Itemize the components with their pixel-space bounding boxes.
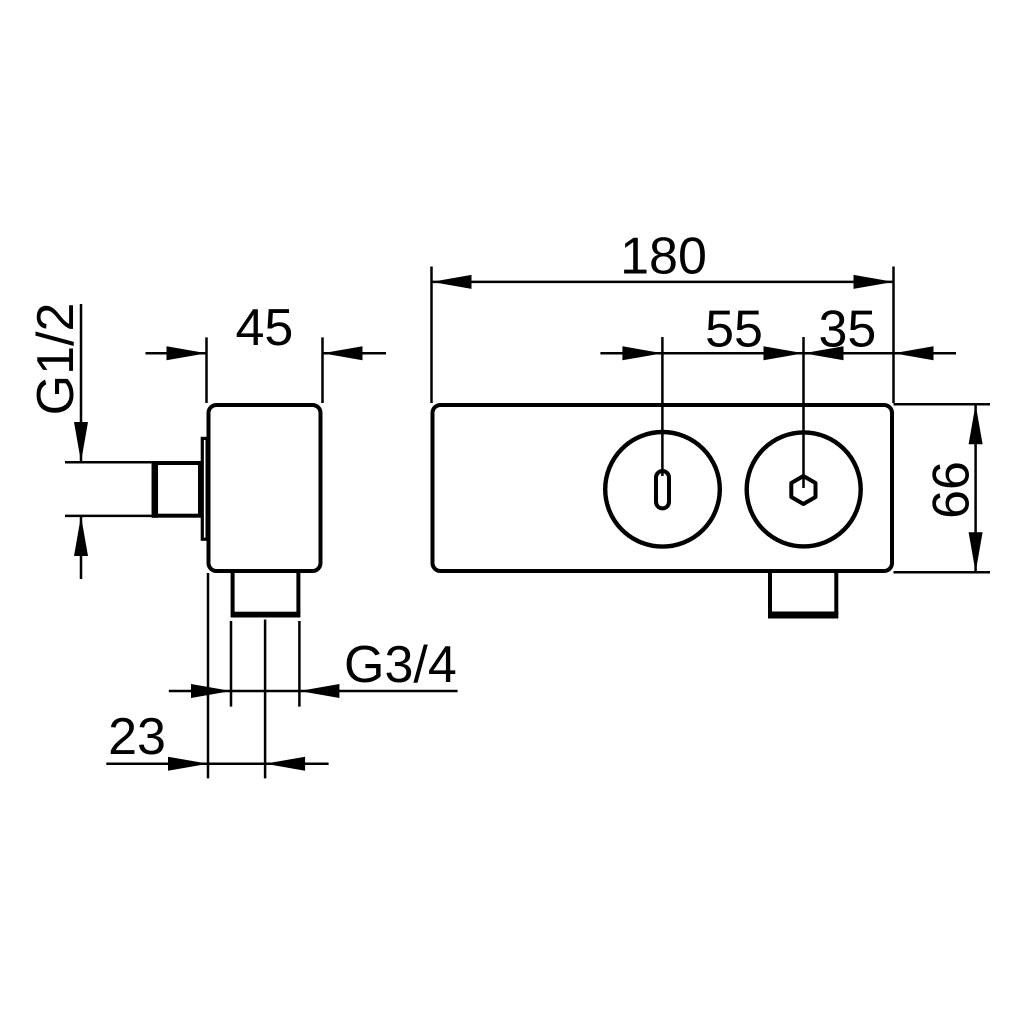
bottom outlet front view — [770, 571, 836, 615]
180 dim extension lines — [432, 267, 894, 404]
23 dim arrows — [168, 757, 208, 771]
180 dim arrows — [432, 275, 472, 289]
bottom outlet front view thick end — [768, 612, 838, 619]
svg-text:45: 45 — [235, 299, 293, 357]
inlet connector thick end — [152, 461, 159, 518]
G1/2 dim arrows — [74, 422, 88, 462]
23 dim line — [106, 762, 328, 765]
66 dim line — [974, 404, 977, 572]
45 dim arrows — [167, 346, 207, 360]
bottom outlet side view thick end — [231, 612, 301, 618]
svg-text:55: 55 — [705, 301, 763, 359]
45 dim line tails — [146, 352, 387, 355]
svg-text:G1/2: G1/2 — [27, 303, 85, 416]
hex socket — [791, 476, 815, 504]
66 dim arrows — [969, 404, 983, 444]
outlet center line — [264, 620, 267, 779]
55 dim arrows — [622, 346, 662, 360]
180 dim line — [432, 281, 894, 284]
G1/2 extension lines — [65, 462, 152, 516]
G3/4 dim arrows — [191, 684, 231, 698]
svg-text:35: 35 — [818, 301, 876, 359]
wall flange — [202, 438, 207, 539]
G3/4 dim line — [169, 690, 458, 693]
55 35 dim line — [600, 352, 956, 355]
slot in left circle — [656, 471, 669, 508]
66 dim extension lines — [894, 404, 991, 572]
valve body side view — [209, 405, 321, 571]
35 dim arrows — [804, 346, 844, 360]
G1/2 dim vertical line — [80, 304, 83, 579]
svg-text:23: 23 — [108, 708, 166, 766]
bottom outlet side view — [233, 571, 299, 613]
right control circle — [747, 432, 861, 546]
circle center line 2 — [802, 337, 805, 488]
svg-text:66: 66 — [923, 461, 981, 519]
body edge reference line — [207, 573, 210, 778]
svg-text:180: 180 — [620, 228, 707, 286]
valve body front view — [433, 405, 893, 571]
inlet connector G1/2 — [155, 463, 201, 516]
45 dim extension lines — [207, 337, 323, 403]
circle center line 1 — [661, 337, 664, 476]
left control circle — [605, 432, 720, 547]
G3/4 extension lines — [231, 621, 299, 707]
svg-text:G3/4: G3/4 — [344, 636, 457, 694]
